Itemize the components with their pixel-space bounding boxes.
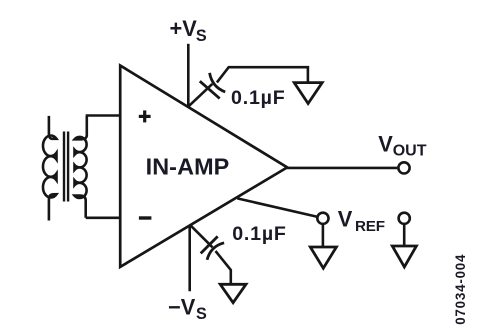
svg-text:0.1µF: 0.1µF [231, 87, 286, 109]
svg-text:REF: REF [355, 218, 385, 235]
svg-text:V: V [378, 131, 393, 156]
svg-text:OUT: OUT [393, 143, 427, 160]
svg-text:+V: +V [170, 16, 198, 41]
svg-text:IN-AMP: IN-AMP [146, 153, 230, 179]
svg-text:−V: −V [168, 294, 196, 319]
svg-text:0.1µF: 0.1µF [232, 223, 287, 245]
svg-text:S: S [196, 305, 207, 323]
svg-text:07034-004: 07034-004 [453, 254, 468, 325]
svg-text:S: S [196, 27, 207, 45]
svg-text:V: V [338, 206, 353, 231]
